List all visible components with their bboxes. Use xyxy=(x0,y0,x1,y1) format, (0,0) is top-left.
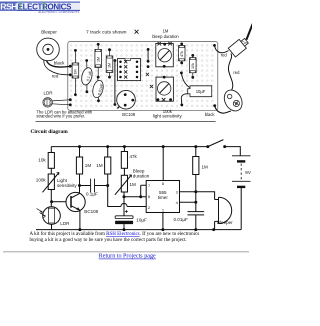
junction dots top rail xyxy=(50,145,226,231)
svg-text:1M: 1M xyxy=(202,164,209,169)
resistor 1M (circuit b) chain xyxy=(107,147,109,157)
wire red (bleeper) xyxy=(44,60,70,75)
transistor BC108 (circuit) xyxy=(66,192,85,211)
svg-text:1M: 1M xyxy=(163,29,169,34)
resistor 1M (board, b) xyxy=(95,43,102,79)
track cut X (right of socket) xyxy=(146,73,149,76)
svg-text:100k: 100k xyxy=(36,178,47,183)
svg-text:stranded wire if you prefer.: stranded wire if you prefer. xyxy=(36,114,85,119)
capacitor 0.01uF (board) xyxy=(91,78,105,102)
resistor 47k (board, d) xyxy=(178,43,185,65)
horizontal rule xyxy=(3,251,249,253)
resistor 10k chain lead xyxy=(50,147,52,153)
svg-text:ELECTRONIC COMPONENTS: ELECTRONIC COMPONENTS xyxy=(38,11,79,14)
switch (layout, top right) xyxy=(228,24,252,57)
svg-text:7: 7 xyxy=(148,183,150,188)
black wire snap->board xyxy=(205,104,231,117)
red wire switch->battery snap xyxy=(228,54,240,93)
svg-text:10µF: 10µF xyxy=(136,218,147,223)
svg-text:1M: 1M xyxy=(74,69,78,74)
logo RSH Electronics xyxy=(0,2,80,15)
svg-text:bleep duration: bleep duration xyxy=(152,34,179,39)
resistor 1M (board, c) xyxy=(106,48,113,78)
svg-text:8: 8 xyxy=(162,181,164,186)
svg-text:light sensitivity: light sensitivity xyxy=(153,114,183,119)
svg-text:47k: 47k xyxy=(130,154,138,159)
resistor 10k (board, e) xyxy=(190,54,197,79)
wire link (board, vertical) xyxy=(114,59,117,106)
resistor 47k (circuit) chain xyxy=(123,147,125,152)
svg-text:1M: 1M xyxy=(96,57,100,62)
resistor 1M (circuit a) xyxy=(76,157,82,174)
wire pin7/pin6 xyxy=(124,185,146,197)
svg-text:1M: 1M xyxy=(96,163,103,168)
svg-text:sensitivity: sensitivity xyxy=(57,183,77,188)
svg-text:47k: 47k xyxy=(180,51,184,57)
junction dots bottom rail xyxy=(78,228,81,231)
resistor 10k xyxy=(48,153,54,169)
svg-text:LDR: LDR xyxy=(44,91,54,96)
svg-text:0.1µF: 0.1µF xyxy=(86,191,98,196)
wire collector chain xyxy=(79,147,81,157)
svg-text:0.01µF: 0.01µF xyxy=(174,217,188,222)
svg-text:4: 4 xyxy=(176,200,179,205)
svg-text:10k: 10k xyxy=(38,158,46,163)
svg-text:10µF: 10µF xyxy=(196,89,206,94)
svg-text:Return to Projects page: Return to Projects page xyxy=(99,254,156,260)
bleeper (circuit) speaker xyxy=(215,200,219,230)
IC socket (8-pin, with track cuts) xyxy=(118,59,141,81)
svg-text:RSH: RSH xyxy=(0,2,17,12)
svg-text:Circuit diagram: Circuit diagram xyxy=(31,129,69,135)
svg-text:A kit for this project is avai: A kit for this project is available from… xyxy=(30,232,200,237)
555 timer U1 xyxy=(146,181,179,213)
capacitor 0.1uF (circuit) xyxy=(80,185,108,187)
svg-text:2: 2 xyxy=(148,205,150,210)
svg-text:3: 3 xyxy=(176,189,178,194)
svg-text:9V: 9V xyxy=(245,170,252,175)
capacitor 10uF electrolytic (board) with leads xyxy=(180,72,212,107)
wire base xyxy=(52,201,67,203)
capacitor 10uF (circuit) xyxy=(115,216,133,219)
resistor 1M (board, a) xyxy=(72,49,79,96)
battery 9V xyxy=(232,155,251,157)
capacitor 0.1uF (board) xyxy=(80,59,94,93)
potentiometer 1M bleep duration (board) xyxy=(156,42,174,68)
figure bottom rule xyxy=(36,120,216,122)
transistor BC108 (board) xyxy=(117,90,136,109)
variable resistor 1M bleep duration xyxy=(121,175,127,192)
svg-text:duration: duration xyxy=(133,174,150,179)
svg-text:timer: timer xyxy=(158,195,169,200)
variable resistor 100k xyxy=(48,174,54,190)
capacitor 0.01uF (circuit) xyxy=(188,212,205,215)
svg-text:Bleeper: Bleeper xyxy=(217,220,233,225)
wire bottom rail xyxy=(36,229,241,231)
svg-text:BC108: BC108 xyxy=(84,209,98,214)
svg-text:red: red xyxy=(52,74,59,79)
LDR (circuit) xyxy=(43,207,61,225)
svg-text:buying a kit is a good way to: buying a kit is a good way to be sure yo… xyxy=(30,238,187,243)
battery snap PP3 xyxy=(221,87,246,114)
svg-text:1M: 1M xyxy=(108,63,112,68)
svg-text:7 track cuts shown: 7 track cuts shown xyxy=(86,30,127,36)
svg-text:Bleeper: Bleeper xyxy=(41,30,57,35)
node dots circuit xyxy=(50,200,53,203)
svg-text:black: black xyxy=(205,112,216,117)
svg-text:1M: 1M xyxy=(130,182,137,187)
switch S1 xyxy=(208,140,224,147)
svg-text:10k: 10k xyxy=(191,63,195,69)
svg-text:BC108: BC108 xyxy=(122,112,135,117)
wire top rail xyxy=(51,147,240,156)
svg-text:red: red xyxy=(233,70,240,75)
wire link (board, x=148) xyxy=(147,48,150,68)
svg-text:6: 6 xyxy=(148,194,150,199)
bleeper (speaker) xyxy=(37,38,60,61)
svg-text:LDR: LDR xyxy=(60,221,70,226)
resistor 1M (circuit, right) chain xyxy=(195,147,197,157)
track cut X (left of pot2) xyxy=(150,85,153,88)
svg-text:red: red xyxy=(221,52,228,57)
wire black (bleeper) xyxy=(47,61,70,68)
red wire board->switch xyxy=(213,44,228,57)
svg-text:1: 1 xyxy=(162,208,164,213)
stripboard xyxy=(68,42,218,111)
potentiometer 100k light sensitivity (board) xyxy=(156,76,173,102)
svg-text:black: black xyxy=(54,61,65,66)
svg-text:1M: 1M xyxy=(85,163,92,168)
